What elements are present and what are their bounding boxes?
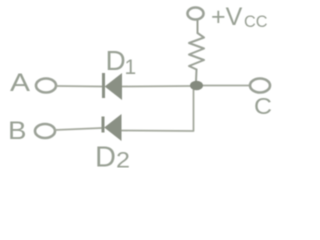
wire B to D2 [55,128,102,130]
svg-text:+V: +V [211,3,243,31]
svg-text:1: 1 [125,56,137,79]
wire resistor to node [195,70,198,82]
svg-text:D: D [106,45,126,76]
resistor R [189,33,204,70]
svg-text:CC: CC [244,12,268,31]
svg-text:D: D [95,142,116,169]
wire D2 to node branch [122,88,194,131]
terminal +Vcc [188,8,204,20]
svg-text:A: A [10,69,30,97]
wire Vcc terminal to resistor [197,20,199,34]
svg-text:2: 2 [116,148,130,169]
diode D1 [104,73,122,99]
terminal B [35,124,55,138]
diode D2 [103,115,121,140]
wire node to terminal C [202,85,250,87]
terminal A [36,79,56,93]
svg-text:C: C [254,93,272,119]
node junction dot [190,81,203,91]
wire A to D1 [56,85,103,88]
wire D1 to node [122,85,191,88]
svg-text:B: B [8,117,27,145]
terminal C [250,79,270,93]
